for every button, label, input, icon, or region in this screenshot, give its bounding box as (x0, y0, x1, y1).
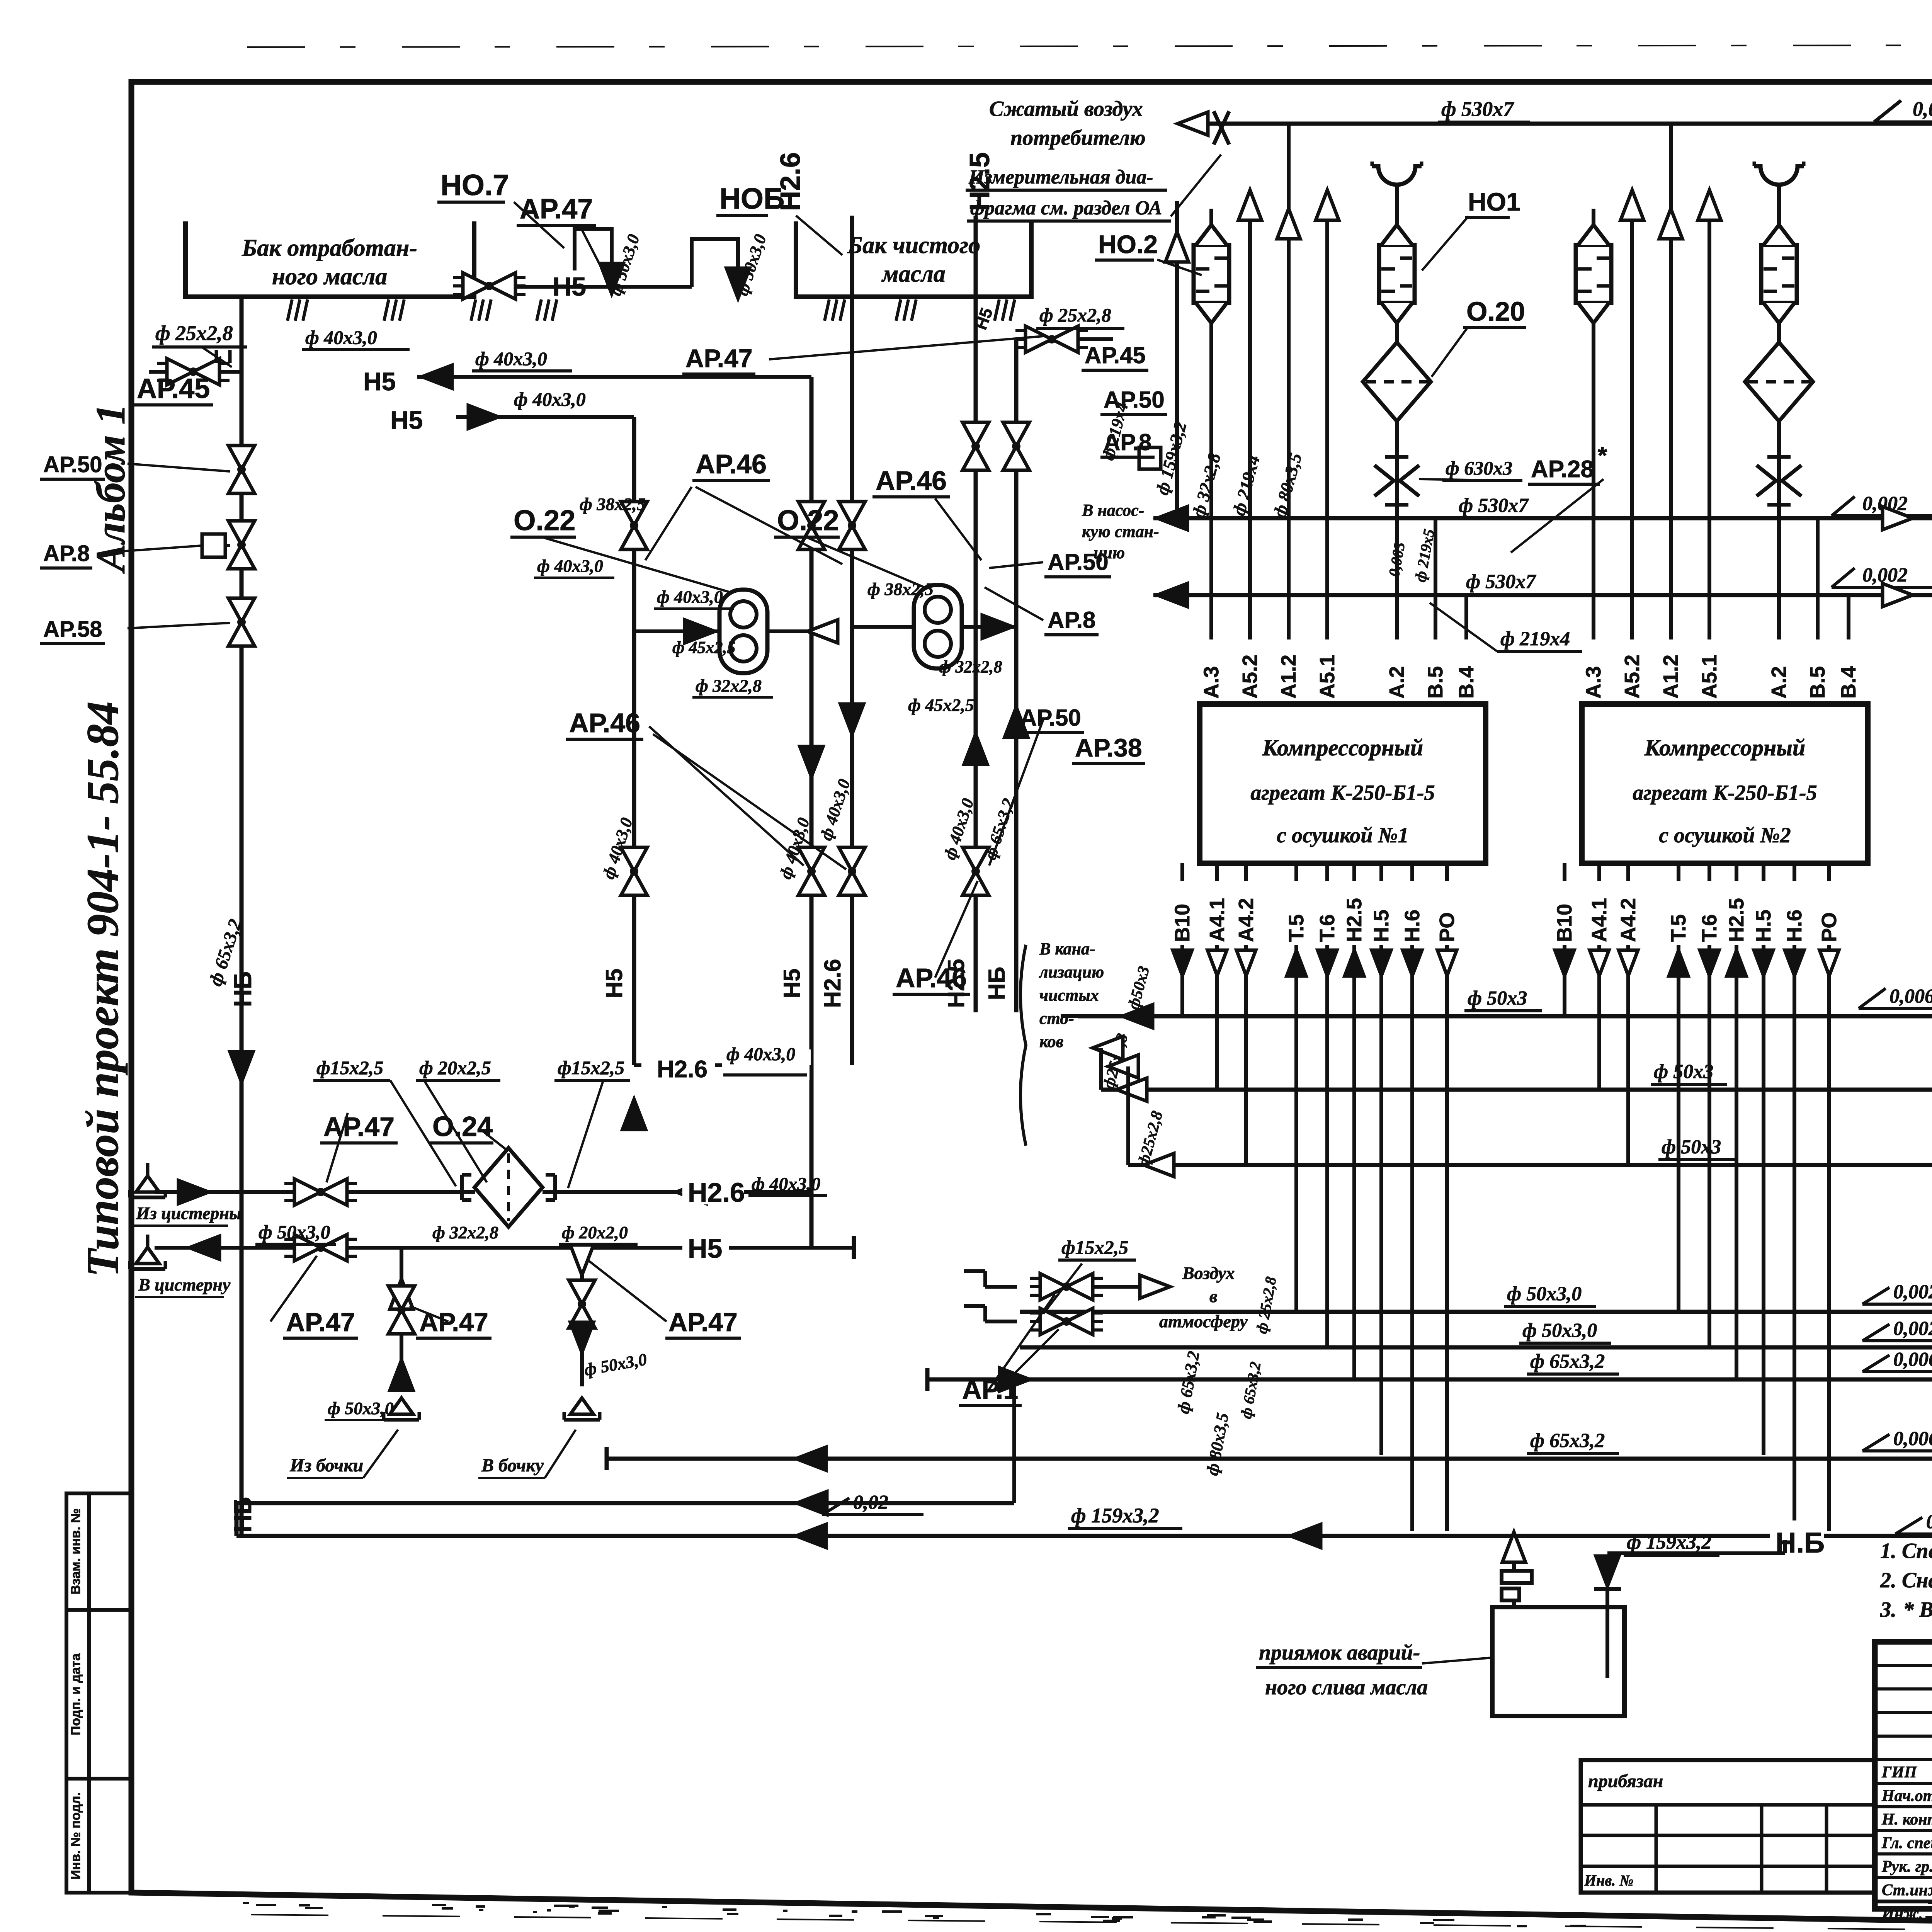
svg-text:АР.8: АР.8 (43, 541, 90, 566)
svg-text:ф 45х2,5: ф 45х2,5 (672, 638, 736, 657)
svg-text:ф 40х3,0: ф 40х3,0 (726, 1044, 795, 1065)
svg-text:Рук. гр.: Рук. гр. (1881, 1858, 1932, 1876)
svg-text:АР.46: АР.46 (696, 449, 767, 479)
svg-text:А1.2: А1.2 (1277, 655, 1300, 699)
svg-text:АР.46: АР.46 (896, 963, 967, 993)
svg-text:Н2.6: Н2.6 (657, 1056, 707, 1083)
svg-text:сто-: сто- (1039, 1009, 1074, 1028)
svg-text:0,002: 0,002 (1893, 1318, 1932, 1340)
svg-text:ф 65х3,2: ф 65х3,2 (1530, 1430, 1605, 1452)
svg-text:Н5: Н5 (553, 272, 586, 301)
svg-text:кую стан-: кую стан- (1082, 522, 1159, 541)
svg-text:ф 50х3,0: ф 50х3,0 (328, 1398, 394, 1418)
svg-text:Инв. № подл.: Инв. № подл. (68, 1792, 83, 1879)
svg-text:ф 45х2,5: ф 45х2,5 (908, 695, 974, 715)
svg-text:Т.5: Т.5 (1285, 914, 1308, 942)
svg-text:Н2.6: Н2.6 (775, 152, 806, 211)
svg-text:ф 32х2,8: ф 32х2,8 (432, 1223, 498, 1242)
svg-text:АР.45: АР.45 (1085, 342, 1146, 368)
svg-text:ф 38х2,5: ф 38х2,5 (867, 579, 934, 599)
svg-text:масла: масла (881, 261, 946, 287)
svg-text:АР.38: АР.38 (1075, 733, 1142, 762)
svg-text:АР.47: АР.47 (685, 344, 753, 372)
svg-text:цию: цию (1094, 543, 1125, 562)
svg-text:В кана-: В кана- (1039, 939, 1095, 958)
svg-text:А.2: А.2 (1385, 666, 1408, 699)
svg-text:АР.47: АР.47 (520, 194, 593, 224)
svg-text:1. Спецификацию оборудова: 1. Спецификацию оборудования и арматуры … (1880, 1539, 1932, 1563)
svg-text:0,006: 0,006 (1889, 985, 1932, 1007)
svg-text:чистых: чистых (1039, 986, 1099, 1005)
svg-text:В насос-: В насос- (1082, 501, 1144, 520)
svg-text:Н5: Н5 (390, 406, 423, 434)
svg-text:потребителю: потребителю (1010, 126, 1146, 150)
svg-text:Сжатый воздух: Сжатый воздух (989, 97, 1143, 121)
svg-text:Н2.5: Н2.5 (1343, 898, 1366, 942)
svg-text:Н. контр.: Н. контр. (1881, 1811, 1932, 1828)
svg-text:с осушкой №1: с осушкой №1 (1277, 823, 1408, 847)
svg-text:ф 32х2,8: ф 32х2,8 (696, 676, 762, 696)
svg-text:В.4: В.4 (1455, 666, 1478, 699)
svg-text:А5.1: А5.1 (1316, 655, 1339, 699)
svg-text:ф 40х3,0: ф 40х3,0 (305, 327, 377, 348)
svg-text:АР.47: АР.47 (668, 1308, 738, 1337)
svg-text:А4.1: А4.1 (1588, 898, 1611, 942)
svg-text:ф 219х4: ф 219х4 (1500, 628, 1570, 650)
svg-text:АР.58: АР.58 (43, 617, 102, 642)
svg-text:АР.47: АР.47 (286, 1308, 355, 1337)
svg-text:Инв. №: Инв. № (1584, 1872, 1634, 1889)
svg-text:ф15х2,5: ф15х2,5 (316, 1057, 383, 1078)
svg-text:О.20: О.20 (1466, 296, 1525, 327)
svg-text:О.22: О.22 (777, 504, 839, 536)
svg-text:0,003: 0,003 (1913, 97, 1932, 121)
svg-text:прибязан: прибязан (1588, 1771, 1663, 1791)
svg-text:Н5: Н5 (688, 1233, 722, 1264)
svg-text:ф 530х7: ф 530х7 (1466, 571, 1536, 593)
svg-text:АР.28: АР.28 (1531, 456, 1594, 483)
svg-text:НО.2: НО.2 (1098, 230, 1158, 259)
svg-text:А5.2: А5.2 (1621, 655, 1644, 699)
svg-text:Н.6: Н.6 (1401, 910, 1424, 942)
svg-text:3.: 3. (1880, 1598, 1896, 1622)
svg-text:Воздух: Воздух (1182, 1263, 1235, 1283)
svg-text:Бак отработан-: Бак отработан- (241, 235, 417, 261)
svg-text:А4.1: А4.1 (1206, 898, 1229, 942)
svg-text:Т.6: Т.6 (1698, 914, 1721, 942)
svg-text:ф 530х7: ф 530х7 (1459, 495, 1529, 517)
svg-text:ф 40х3,0: ф 40х3,0 (475, 348, 547, 369)
svg-text:В10: В10 (1171, 904, 1194, 942)
svg-text:А.3: А.3 (1200, 666, 1223, 699)
svg-text:Н2.6: Н2.6 (688, 1177, 745, 1207)
svg-text:ф 530х7: ф 530х7 (1441, 97, 1514, 121)
svg-text:В бочку: В бочку (481, 1455, 544, 1476)
svg-text:0,006: 0,006 (1893, 1428, 1932, 1450)
svg-text:агрегат К-250-Б1-5: агрегат К-250-Б1-5 (1250, 781, 1435, 805)
svg-text:* Входит в комплект пос: * Входит в комплект поставки оборудовани… (1903, 1598, 1932, 1622)
svg-text:ф 50х3,0: ф 50х3,0 (259, 1221, 330, 1243)
svg-text:ф15х2,5: ф15х2,5 (1061, 1236, 1128, 1258)
svg-text:ного масла: ного масла (272, 264, 388, 290)
svg-text:Н.5: Н.5 (1752, 910, 1775, 942)
svg-text:2. Снабжение горячей водой: 2. Снабжение горячей водой решается при … (1880, 1568, 1932, 1592)
svg-text:ф 25х2,8: ф 25х2,8 (1039, 304, 1111, 326)
svg-text:ков: ков (1039, 1032, 1063, 1051)
svg-text:В.5: В.5 (1806, 666, 1829, 699)
svg-text:ф 50х3: ф 50х3 (1654, 1061, 1713, 1083)
svg-text:А4.2: А4.2 (1235, 898, 1258, 942)
svg-text:ф 159х3,2: ф 159х3,2 (1071, 1504, 1159, 1527)
svg-text:А1.2: А1.2 (1659, 655, 1682, 699)
svg-text:ГИП: ГИП (1881, 1764, 1917, 1781)
svg-text:В.5: В.5 (1424, 666, 1447, 699)
svg-text:с осушкой №2: с осушкой №2 (1659, 823, 1791, 847)
svg-text:ф 50х3: ф 50х3 (1468, 987, 1527, 1009)
svg-text:Альбом 1: Альбом 1 (88, 404, 134, 574)
svg-text:Из бочки: Из бочки (289, 1455, 363, 1476)
svg-text:Н.5: Н.5 (1370, 910, 1393, 942)
svg-text:Т.6: Т.6 (1316, 914, 1339, 942)
svg-text:Взам. инв. №: Взам. инв. № (68, 1508, 83, 1594)
svg-text:А5.1: А5.1 (1698, 655, 1721, 699)
svg-text:НО.7: НО.7 (440, 169, 509, 202)
svg-text:Гл. спец.: Гл. спец. (1881, 1834, 1932, 1852)
svg-text:Н2.6: Н2.6 (820, 959, 845, 1008)
svg-text:А5.2: А5.2 (1238, 655, 1262, 699)
svg-text:АР.8: АР.8 (1048, 607, 1095, 633)
svg-text:НБ: НБ (984, 967, 1010, 1000)
svg-text:ф 159х3,2: ф 159х3,2 (1627, 1531, 1711, 1553)
svg-text:АР.50: АР.50 (43, 452, 102, 477)
svg-text:ф 630х3: ф 630х3 (1446, 457, 1512, 479)
svg-text:ф 50х3: ф 50х3 (1662, 1136, 1721, 1158)
svg-text:АР.46: АР.46 (569, 708, 640, 738)
svg-text:агрегат К-250-Б1-5: агрегат К-250-Б1-5 (1633, 781, 1817, 805)
svg-text:Т.5: Т.5 (1667, 914, 1690, 942)
svg-text:О.22: О.22 (514, 504, 575, 536)
svg-text:Компрессорный: Компрессорный (1262, 735, 1423, 760)
svg-text:А4.2: А4.2 (1617, 898, 1640, 942)
svg-text:ф 38х2,5: ф 38х2,5 (580, 494, 646, 514)
svg-text:0,006: 0,006 (1893, 1349, 1932, 1371)
svg-text:АР.46: АР.46 (876, 466, 947, 496)
svg-text:атмосферу: атмосферу (1159, 1311, 1248, 1331)
svg-text:ф 50х3,0: ф 50х3,0 (1507, 1283, 1582, 1305)
svg-text:Типовой проект 904-1- 55: Типовой проект 904-1- 55.84 (77, 701, 128, 1277)
svg-text:*: * (1598, 442, 1607, 469)
svg-text:НБ: НБ (229, 971, 257, 1007)
svg-text:Из цистерны: Из цистерны (136, 1203, 241, 1223)
svg-text:АР.47: АР.47 (323, 1112, 395, 1142)
svg-text:Н5: Н5 (601, 969, 627, 998)
svg-text:Ст.инж.: Ст.инж. (1882, 1881, 1932, 1899)
svg-text:Н2.5: Н2.5 (1725, 898, 1748, 942)
svg-text:ф15х2,5: ф15х2,5 (558, 1057, 624, 1078)
svg-text:А.3: А.3 (1582, 666, 1605, 699)
svg-text:ф 40х3,0: ф 40х3,0 (657, 587, 723, 607)
svg-text:ф 40х3,0: ф 40х3,0 (514, 388, 586, 410)
svg-text:лизацию: лизацию (1039, 963, 1104, 981)
svg-text:А.2: А.2 (1767, 666, 1791, 699)
svg-text:0,002: 0,002 (1893, 1281, 1932, 1303)
svg-text:РО: РО (1435, 912, 1459, 942)
svg-text:О.24: О.24 (432, 1111, 493, 1142)
svg-text:ф 32х2,8: ф 32х2,8 (939, 657, 1002, 676)
svg-text:ф 40х3,0: ф 40х3,0 (537, 556, 603, 576)
svg-text:ф 65х3,2: ф 65х3,2 (1530, 1350, 1605, 1372)
svg-text:Инж.: Инж. (1881, 1905, 1923, 1923)
svg-text:0,02: 0,02 (1926, 1511, 1932, 1533)
svg-text:НО1: НО1 (1468, 187, 1520, 216)
svg-text:Нач.отд.: Нач.отд. (1881, 1787, 1932, 1805)
svg-text:В цистерну: В цистерну (138, 1275, 231, 1294)
svg-text:Подп. и дата: Подп. и дата (68, 1653, 83, 1735)
svg-text:приямок аварий-: приямок аварий- (1259, 1641, 1420, 1665)
svg-text:В.4: В.4 (1837, 666, 1860, 699)
svg-text:АР.45: АР.45 (137, 373, 210, 404)
svg-text:Компрессорный: Компрессорный (1644, 735, 1806, 760)
svg-text:Н5: Н5 (779, 969, 805, 998)
svg-text:РО: РО (1818, 912, 1841, 942)
svg-text:Н5: Н5 (363, 367, 396, 396)
svg-text:АР.50: АР.50 (1020, 705, 1081, 731)
svg-text:ф 20х2,5: ф 20х2,5 (419, 1057, 491, 1078)
svg-text:ного слива масла: ного слива масла (1265, 1675, 1428, 1699)
svg-text:ф 25х2,8: ф 25х2,8 (155, 321, 233, 345)
svg-text:фрагма см. раздел ОА: фрагма см. раздел ОА (970, 197, 1162, 219)
svg-text:ф 20х2,0: ф 20х2,0 (562, 1223, 628, 1242)
svg-text:0,02: 0,02 (853, 1492, 888, 1514)
svg-text:ф 50х3,0: ф 50х3,0 (1522, 1320, 1597, 1342)
svg-text:Н.6: Н.6 (1783, 910, 1806, 942)
svg-text:АР.47: АР.47 (419, 1308, 488, 1337)
svg-text:Измерительная диа-: Измерительная диа- (968, 166, 1153, 188)
svg-text:в: в (1209, 1286, 1218, 1306)
svg-text:В10: В10 (1553, 904, 1576, 942)
svg-text:Бак чистого: Бак чистого (847, 232, 980, 259)
